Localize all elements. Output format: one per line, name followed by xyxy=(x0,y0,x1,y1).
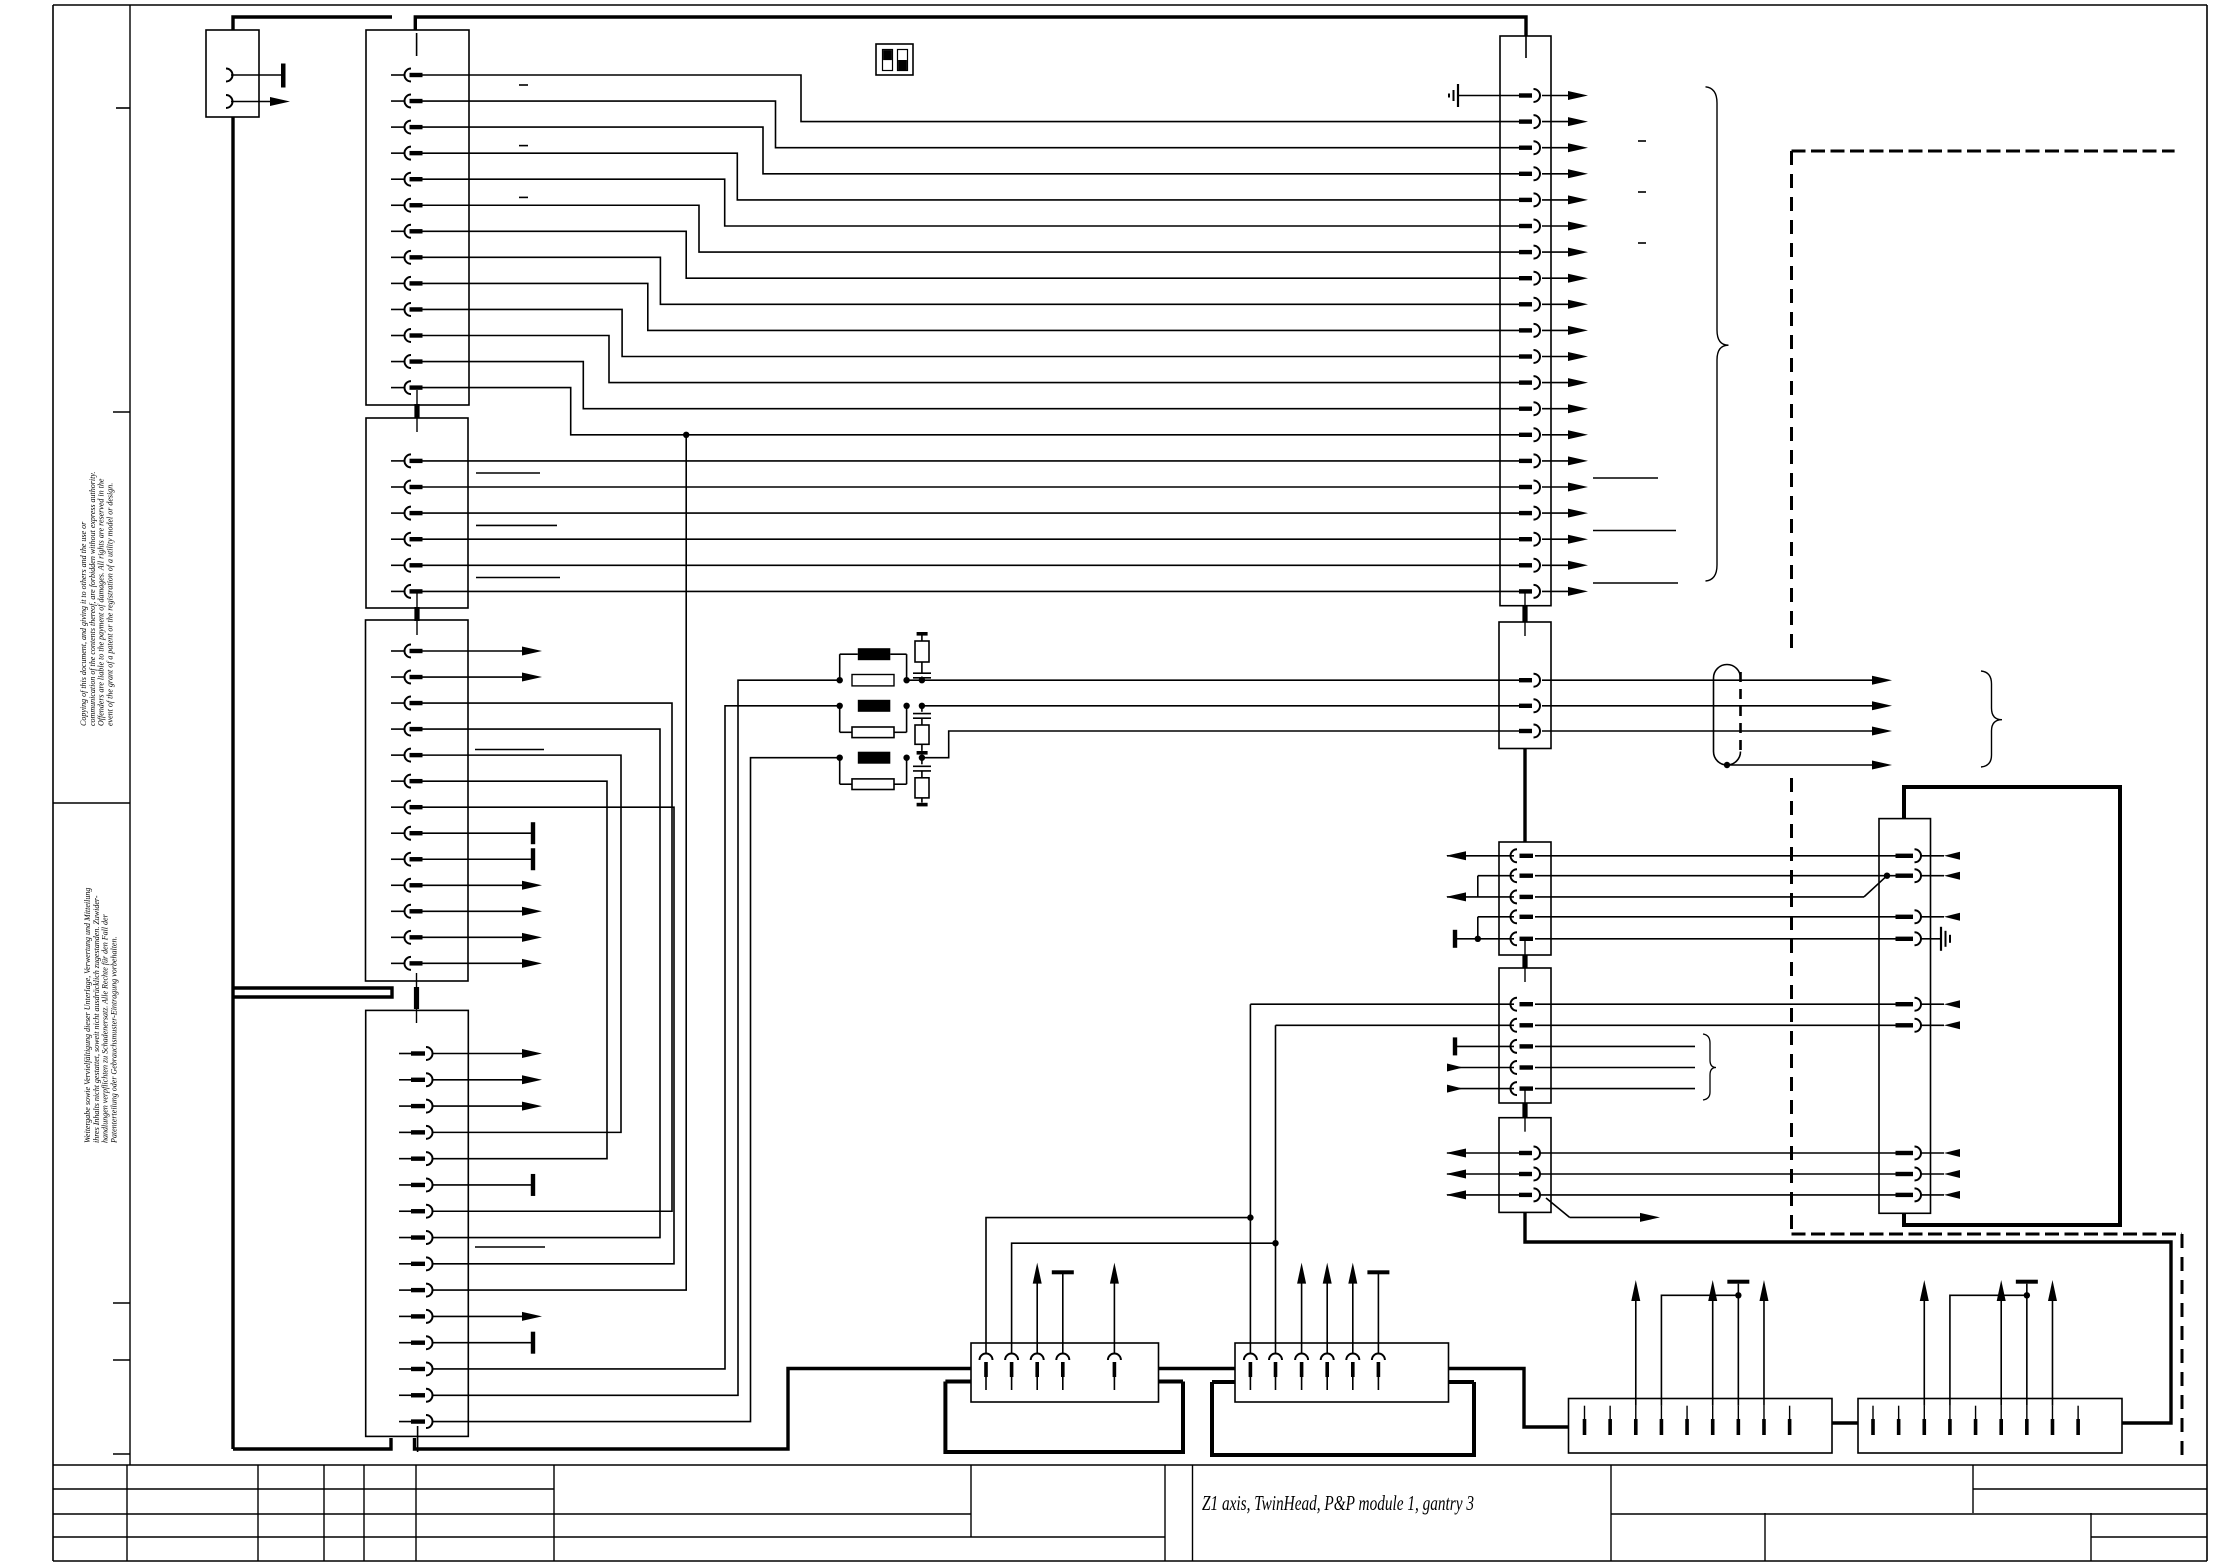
wire C1 pin2 to D pin2 xyxy=(1535,875,1896,877)
arrow out of block A pin 19 xyxy=(1542,564,1569,566)
arrow up F pin6 xyxy=(2000,1300,2002,1406)
margin disclaimer text german xyxy=(83,888,118,1144)
block3 pin 11 xyxy=(391,910,405,912)
connector E box xyxy=(1569,1399,1833,1454)
block2 pin 1 xyxy=(391,460,405,462)
arrow out of block A pin 5 xyxy=(1542,199,1569,201)
connector E pin 6 xyxy=(1712,1406,1714,1419)
big brace for block A signals xyxy=(1706,87,1729,581)
cable shield capsule xyxy=(1714,665,1741,766)
arrow out of C3 pin 1 xyxy=(1447,1152,1519,1154)
block2 pin 3 xyxy=(391,512,405,514)
arrow up G pin5 xyxy=(1113,1282,1115,1354)
block1 pin 1 xyxy=(391,74,405,76)
block3 pin 6 xyxy=(391,780,405,782)
block A pin 2 xyxy=(1519,119,1532,123)
wire block4 pin 11 arrow xyxy=(433,1315,536,1317)
block A pin 6 xyxy=(1519,224,1532,228)
junction C2-C3 xyxy=(1524,1089,1526,1132)
wire block1 pin 8 to right connector row 9 xyxy=(422,257,1519,304)
wire block3 pin 7 to block4 pin 9 xyxy=(422,807,674,1264)
arrow out of block A pin 10 xyxy=(1542,329,1569,331)
right unit thick enclosure xyxy=(1904,787,2120,1225)
svg-text:ihres Inhalts nicht gestattet,: ihres Inhalts nicht gestattet, soweit ni… xyxy=(92,895,101,1143)
wire C1 pin1 to D pin1 xyxy=(1535,855,1896,857)
block3 pin 2 xyxy=(391,676,405,678)
wire block1 pin 4 to right connector row 5 xyxy=(422,153,1519,200)
wire C2 pin1 from bottom connectors xyxy=(1250,1003,1514,1005)
svg-text:event of the grant of a patent: event of the grant of a patent or the re… xyxy=(105,483,114,726)
block C2 pin 3 xyxy=(1511,1040,1517,1053)
terminator T pin 1 of M xyxy=(281,64,286,88)
block C3 pin 1 xyxy=(1519,1151,1532,1155)
wire block2 pin 5 to right connector row 19 xyxy=(422,564,1519,566)
wire block2 pin 6 to right connector row 20 xyxy=(422,590,1519,592)
connector D pin 7 xyxy=(1896,1151,1914,1155)
block A pin 8 xyxy=(1519,276,1532,280)
wire C2 pin2 from bottom connectors xyxy=(1276,1024,1515,1026)
terminator at C1 pin 5 xyxy=(1457,938,1514,940)
connector X1 block1 box xyxy=(366,30,469,405)
block2 pin 4 xyxy=(391,538,405,540)
block A pin 7 xyxy=(1519,250,1532,254)
block C2 pin 2 xyxy=(1511,1019,1518,1032)
block1 pin 2 xyxy=(391,100,405,102)
connector E pin 3 xyxy=(1635,1406,1637,1419)
arrow out of block A pin 17 xyxy=(1542,512,1569,514)
connector D pin 2 xyxy=(1896,874,1914,878)
connector F pin 4 xyxy=(1949,1406,1951,1419)
block2 pin 2 xyxy=(391,486,405,488)
arrow up F pin3 xyxy=(1923,1300,1925,1406)
connector D pin 8 xyxy=(1896,1172,1914,1176)
connector F pin 6 xyxy=(2000,1406,2002,1419)
junction block A - block B xyxy=(1524,592,1526,636)
wire block1 pin 5 to right connector row 6 xyxy=(422,179,1519,226)
arrow out of block A pin 12 xyxy=(1542,382,1569,384)
terminator G pin4 xyxy=(1062,1274,1064,1354)
wire E pin4 to pin7 xyxy=(1661,1295,1738,1405)
block A pin 11 xyxy=(1519,354,1532,358)
block1 pin 6 xyxy=(391,204,405,206)
block2 pin 5 xyxy=(391,564,405,566)
wire block B pin 3 through shield xyxy=(1542,730,1872,732)
wire F pin4 to pin7 xyxy=(1950,1295,2027,1405)
jog C1 pin2-pin3 xyxy=(1478,875,1514,877)
dashed cable boundary right xyxy=(1792,150,2175,153)
block A pin 16 xyxy=(1519,485,1532,489)
block4 pin 3 xyxy=(399,1105,411,1107)
arrow up E pin3 xyxy=(1635,1300,1637,1406)
connector F pin 7 xyxy=(2026,1406,2028,1419)
connector E pin 5 xyxy=(1686,1406,1688,1419)
block A pin 4 xyxy=(1519,172,1532,176)
block3 pin 10 xyxy=(391,884,405,886)
junction block1-block2 xyxy=(416,390,418,432)
RC snubber C2 R5 on net2 xyxy=(921,706,923,712)
RC snubber C1 R4 on net1 xyxy=(921,677,923,681)
wire C2 pin2 to D pin6 xyxy=(1535,1024,1896,1026)
wire number labels block1 xyxy=(519,84,528,86)
wire block B pin 1 through shield xyxy=(1542,679,1872,681)
connector X1 block4 box xyxy=(366,1010,469,1436)
connector F pin 2 xyxy=(1898,1406,1900,1419)
connector E pin 9 xyxy=(1789,1406,1791,1419)
connector H pin 6 xyxy=(1372,1354,1385,1361)
arrow up H pin5 xyxy=(1352,1282,1354,1354)
wire block4 pin 3 arrow xyxy=(433,1105,536,1107)
block3 pin 7 xyxy=(391,806,405,808)
block1 pin 5 xyxy=(391,178,405,180)
wire block1 pin 10 to right connector row 11 xyxy=(422,309,1519,356)
arrow at D pin 6 xyxy=(1921,1024,1944,1026)
chassis ground at block A pin 1 xyxy=(1459,95,1519,97)
block A pin 17 xyxy=(1519,511,1532,515)
block3 pin 1 xyxy=(391,650,405,652)
junction block3-block4 xyxy=(416,973,418,1023)
terminator H pin6 xyxy=(1377,1274,1379,1354)
connector X21 block C3 box xyxy=(1499,1118,1551,1213)
connector E pin 2 xyxy=(1609,1406,1611,1419)
arrow out of block A pin 2 xyxy=(1542,121,1569,123)
block1 pin 13 xyxy=(391,387,405,389)
wire G pin1 up xyxy=(986,1218,1250,1354)
arrow out of block A pin 1 xyxy=(1542,95,1569,97)
block C2 pin 5 xyxy=(1511,1082,1517,1095)
block1 pin 12 xyxy=(391,361,405,363)
block1 pin 11 xyxy=(391,335,405,337)
wire labels block2 xyxy=(476,472,540,474)
wire block4 pin 12 terminated xyxy=(433,1342,531,1344)
wire block1 pin 2 to right connector row 3 xyxy=(422,101,1519,148)
connector E pin 8 xyxy=(1763,1406,1765,1419)
block B pin 3 xyxy=(1519,729,1532,733)
block C2 pin 4 xyxy=(1511,1061,1517,1074)
title block table xyxy=(53,1464,2207,1466)
arrow out of C1 pin 1 xyxy=(1447,855,1514,857)
connector F pin 9 xyxy=(2077,1406,2079,1419)
block C3 pin 2 xyxy=(1519,1172,1532,1176)
arrow at D pin 3 xyxy=(1921,916,1944,918)
arrow out of M pin 2 xyxy=(270,97,290,106)
arrow out of block A pin 15 xyxy=(1542,460,1569,462)
block C1 pin 1 xyxy=(1511,849,1517,862)
wire C1 pin4 to D pin3 xyxy=(1535,916,1896,918)
brace for shielded pair xyxy=(1981,671,2002,767)
arrow out of block A pin 20 xyxy=(1542,590,1569,592)
block4 pin 13 xyxy=(399,1368,411,1370)
wire junction vertical to X4 pin 10 xyxy=(433,435,686,1290)
wire block4 pin 6 terminated xyxy=(433,1184,531,1186)
connector F pin 3 xyxy=(1923,1406,1925,1419)
block A pin 19 xyxy=(1519,563,1532,567)
connector E pin 7 xyxy=(1737,1406,1739,1419)
block4 pin 12 xyxy=(399,1342,411,1344)
wire G pin2 up xyxy=(1012,1243,1276,1353)
wire block1 pin 9 to right connector row 10 xyxy=(422,283,1519,330)
block C1 pin 3 xyxy=(1511,890,1517,903)
block C1 pin 5 xyxy=(1511,932,1517,945)
arrow out of block A pin 4 xyxy=(1542,173,1569,175)
svg-text:communication of the contents: communication of the contents thereof, a… xyxy=(88,472,97,726)
connector G pin 3 xyxy=(1031,1354,1044,1361)
wire block2 pin 1 to right connector row 15 xyxy=(422,460,1519,462)
wire block4 pin 15 to filter net3 xyxy=(433,758,840,1422)
connector G box xyxy=(971,1343,1159,1402)
wire label block3 xyxy=(475,749,544,751)
connector F pin 5 xyxy=(1975,1406,1977,1419)
wire H pin1 up to C2 pin1 xyxy=(1249,1004,1251,1353)
hood of connector G xyxy=(945,1382,1183,1453)
wire block3 pin 12 arrow xyxy=(422,936,536,938)
connector F box xyxy=(1858,1399,2122,1454)
svg-text:Offenders are liable to the pa: Offenders are liable to the payment of d… xyxy=(97,478,106,726)
connector H pin 5 xyxy=(1346,1354,1359,1361)
arrow at D pin 7 xyxy=(1921,1152,1944,1154)
block4 pin 2 xyxy=(399,1079,411,1081)
block1 pin 4 xyxy=(391,152,405,154)
arrow at D pin 8 xyxy=(1921,1173,1944,1175)
block4 pin 1 xyxy=(399,1053,411,1055)
block A pin 14 xyxy=(1519,433,1532,437)
filter net3 ferrite L3 and resistor R3 xyxy=(922,731,1519,758)
block3 pin 8 xyxy=(391,832,405,834)
terminator E pin7 xyxy=(1737,1284,1739,1406)
block3 pin 3 xyxy=(391,702,405,704)
wire block1 pin 12 to right connector row 13 xyxy=(422,362,1519,409)
wire block1 pin 13 to right connector row 14 xyxy=(422,388,1519,435)
connector E pin 1 xyxy=(1584,1406,1586,1419)
arrow out of block A pin 11 xyxy=(1542,356,1569,358)
RC snubber C3 R6 on net3 xyxy=(921,758,923,765)
connector H pin 2 xyxy=(1269,1354,1282,1361)
terminator F pin7 xyxy=(2026,1284,2028,1406)
wire block4 pin 2 arrow xyxy=(433,1079,536,1081)
connector D pin 4 xyxy=(1896,937,1914,941)
connector H pin 4 xyxy=(1321,1354,1334,1361)
connector E pin 4 xyxy=(1660,1406,1662,1419)
svg-text:Z1 axis, TwinHead, P&P module: Z1 axis, TwinHead, P&P module 1, gantry … xyxy=(1202,1491,1474,1515)
block2 pin 6 xyxy=(391,590,405,592)
block B pin 1 xyxy=(1519,678,1532,682)
block3 pin 9 xyxy=(391,858,405,860)
block C1 pin 4 xyxy=(1511,910,1517,923)
wire C2 pin5 right xyxy=(1535,1088,1695,1090)
arrow out of block A pin 9 xyxy=(1542,303,1569,305)
wire block3 pin 11 arrow xyxy=(422,910,536,912)
wire block3 pin 9 terminated xyxy=(422,858,531,860)
arrow at D pin 2 xyxy=(1921,875,1944,877)
connector F pin 1 xyxy=(1872,1406,1874,1419)
block4 pin 8 xyxy=(399,1237,411,1239)
block A pin 1 xyxy=(1519,93,1532,97)
wire block1 pin 1 to right connector row 2 xyxy=(422,75,1519,122)
small brace for C2 signals xyxy=(1703,1034,1716,1100)
block1 pin 10 xyxy=(391,308,405,310)
cable shield bus bottom right xyxy=(1525,1212,2171,1423)
arrow into C2 pin 4 xyxy=(1447,1067,1514,1069)
svg-text:Patenterteilung oder Gebrauchs: Patenterteilung oder Gebrauchsmuster-Ein… xyxy=(109,937,118,1144)
wire block1 pin 11 to right connector row 12 xyxy=(422,336,1519,383)
connector G pin 4 xyxy=(1056,1354,1069,1361)
arrow up G pin3 xyxy=(1036,1282,1038,1354)
svg-text:Weitergabe sowie Vervielfältig: Weitergabe sowie Vervielfältigung dieser… xyxy=(83,888,92,1143)
wire C1 pin5 to D pin4 xyxy=(1535,938,1896,940)
wire block3 pin 6 to block4 pin 5 xyxy=(422,781,607,1159)
arrow out of block A pin 18 xyxy=(1542,538,1569,540)
connector X1 block3 box xyxy=(366,620,469,981)
cable shield bus left xyxy=(233,17,392,30)
wire block1 pin 3 to right connector row 4 xyxy=(422,127,1519,174)
DIP switch S1 xyxy=(876,44,913,75)
block4 pin 10 xyxy=(399,1289,411,1291)
wire C2 pin4 right xyxy=(1535,1067,1695,1069)
block4 pin 14 xyxy=(399,1394,411,1396)
block A pin 5 xyxy=(1519,198,1532,202)
block4 pin 4 xyxy=(399,1131,411,1133)
arrow out of block A pin 8 xyxy=(1542,277,1569,279)
net label underlines right of block A xyxy=(1593,477,1658,479)
connector H pin 1 xyxy=(1244,1354,1257,1361)
wire C2 pin3 right xyxy=(1535,1045,1695,1047)
connector X21 block C1 box xyxy=(1499,842,1551,955)
wire block B pin 2 through shield xyxy=(1542,705,1872,707)
block1 pin 7 xyxy=(391,230,405,232)
connector H box xyxy=(1235,1343,1449,1402)
block4 pin 6 xyxy=(399,1184,411,1186)
connector M box xyxy=(206,30,259,117)
block A pin 15 xyxy=(1519,459,1532,463)
arrow out of block A pin 3 xyxy=(1542,147,1569,149)
filter net2 ferrite L2 and resistor R2 xyxy=(922,705,1519,707)
block1 pin 8 xyxy=(391,256,405,258)
arrow up E pin8 xyxy=(1763,1300,1765,1406)
connector G pin 1 xyxy=(980,1354,993,1361)
junction block2-block3 xyxy=(416,593,418,635)
arrow out of block A pin 7 xyxy=(1542,251,1569,253)
wire H pin2 up to C2 pin2 xyxy=(1275,1025,1277,1353)
arrow up H pin4 xyxy=(1326,1282,1328,1354)
block3 pin 5 xyxy=(391,754,405,756)
wire C2 pin1 to D pin5 xyxy=(1535,1003,1896,1005)
arrow out of block A pin 6 xyxy=(1542,225,1569,227)
arrow out of block A pin 14 xyxy=(1542,434,1569,436)
block4 pin 5 xyxy=(399,1158,411,1160)
wire block3 pin 5 to block4 pin 4 xyxy=(422,755,621,1132)
block B pin 2 xyxy=(1519,704,1532,708)
block3 pin 4 xyxy=(391,728,405,730)
cable shield bus top xyxy=(415,17,1526,36)
connector X1 block2 box xyxy=(366,418,468,608)
wire block2 pin 2 to right connector row 16 xyxy=(422,486,1519,488)
arrow into C2 pin 5 xyxy=(1447,1088,1514,1090)
cable shield bus bottom middle xyxy=(1159,1367,1236,1370)
wire block4 pin 13 to filter net2 xyxy=(433,706,840,1369)
wire C3 pin 2 to D xyxy=(1540,1173,1896,1175)
block C2 pin 1 xyxy=(1511,998,1517,1011)
connector H pin 3 xyxy=(1295,1354,1308,1361)
block A pin 12 xyxy=(1519,380,1532,384)
wire block4 pin 14 to filter net1 xyxy=(433,680,840,1395)
wire C3 pin 3 to D xyxy=(1540,1194,1896,1196)
page border frame xyxy=(53,4,2207,6)
wire block4 pin 1 arrow xyxy=(433,1053,536,1055)
connector X20 block A box xyxy=(1500,36,1551,606)
thick vertical link B to C1 xyxy=(1523,749,1526,843)
wire block3 pin 13 arrow xyxy=(422,962,536,964)
jog C1 pin4-pin5 xyxy=(1478,916,1514,918)
terminator at C2 pin 3 xyxy=(1457,1045,1514,1047)
arrow at D pin 5 xyxy=(1921,1003,1944,1005)
block4 pin 9 xyxy=(399,1263,411,1265)
arrow up H pin3 xyxy=(1301,1282,1303,1354)
block4 pin 7 xyxy=(399,1210,411,1212)
shield drain wire xyxy=(1724,762,1730,768)
block C1 pin 2 xyxy=(1511,869,1517,882)
wire block3 pin 1 arrow xyxy=(422,650,536,652)
wire label block4 xyxy=(475,1246,545,1248)
block A pin 20 xyxy=(1519,589,1532,593)
chassis ground at D pin 4 xyxy=(1921,938,1941,940)
block A pin 10 xyxy=(1519,328,1532,332)
arrow up F pin8 xyxy=(2051,1300,2053,1406)
hood of connector H xyxy=(1212,1382,1474,1455)
block1 pin 3 xyxy=(391,126,405,128)
wire block1 pin 6 to right connector row 7 xyxy=(422,205,1519,252)
wire block3 pin 8 terminated xyxy=(422,832,531,834)
block3 pin 13 xyxy=(391,962,405,964)
margin disclaimer text english xyxy=(79,472,114,726)
wire block3 pin 3 to block4 pin 7 xyxy=(422,703,672,1211)
connector D box of right unit xyxy=(1879,819,1931,1214)
wire block2 pin 4 to right connector row 18 xyxy=(422,538,1519,540)
connector X21 block C2 box xyxy=(1499,968,1551,1103)
block4 pin 11 xyxy=(399,1315,411,1317)
wire block2 pin 3 to right connector row 17 xyxy=(422,512,1519,514)
connector D pin 6 xyxy=(1896,1023,1914,1027)
block1 pin 9 xyxy=(391,282,405,284)
connector M pin 2 xyxy=(226,95,233,108)
block A pin 13 xyxy=(1519,407,1532,411)
wire block1 pin 7 to right connector row 8 xyxy=(422,231,1519,278)
connector F pin 8 xyxy=(2051,1406,2053,1419)
junction C1-C2 xyxy=(1524,941,1526,982)
svg-text:handlungen verpflichten zu Sch: handlungen verpflichten zu Schadenersatz… xyxy=(101,913,110,1143)
arrow at D pin 9 xyxy=(1921,1194,1944,1196)
connector D pin 3 xyxy=(1896,915,1914,919)
block A pin 3 xyxy=(1519,146,1532,150)
connector X20 block B box xyxy=(1499,622,1551,749)
block A pin 18 xyxy=(1519,537,1532,541)
connector G pin 5 xyxy=(1108,1354,1121,1361)
arrow out of C3 pin 2 xyxy=(1447,1173,1519,1175)
junction dot on wire 13 xyxy=(683,432,689,438)
block3 pin 12 xyxy=(391,936,405,938)
connector G pin 2 xyxy=(1005,1354,1018,1361)
wire C1 pin3 joins D pin2 xyxy=(1535,896,1864,898)
wire block3 pin 2 arrow xyxy=(422,676,536,678)
wire C3 pin 1 to D xyxy=(1540,1152,1896,1154)
callout from C3 pin 3 xyxy=(1546,1198,1570,1217)
filter net1 ferrite L1 and resistor R1 xyxy=(907,679,1519,681)
block A pin 9 xyxy=(1519,302,1532,306)
block C3 pin 3 xyxy=(1519,1193,1532,1197)
connector M pin 1 xyxy=(226,69,233,82)
arrow up E pin6 xyxy=(1712,1300,1714,1406)
arrow out of block A pin 13 xyxy=(1542,408,1569,410)
arrow out of block A pin 16 xyxy=(1542,486,1569,488)
arrow out of C3 pin 3 xyxy=(1447,1194,1519,1196)
